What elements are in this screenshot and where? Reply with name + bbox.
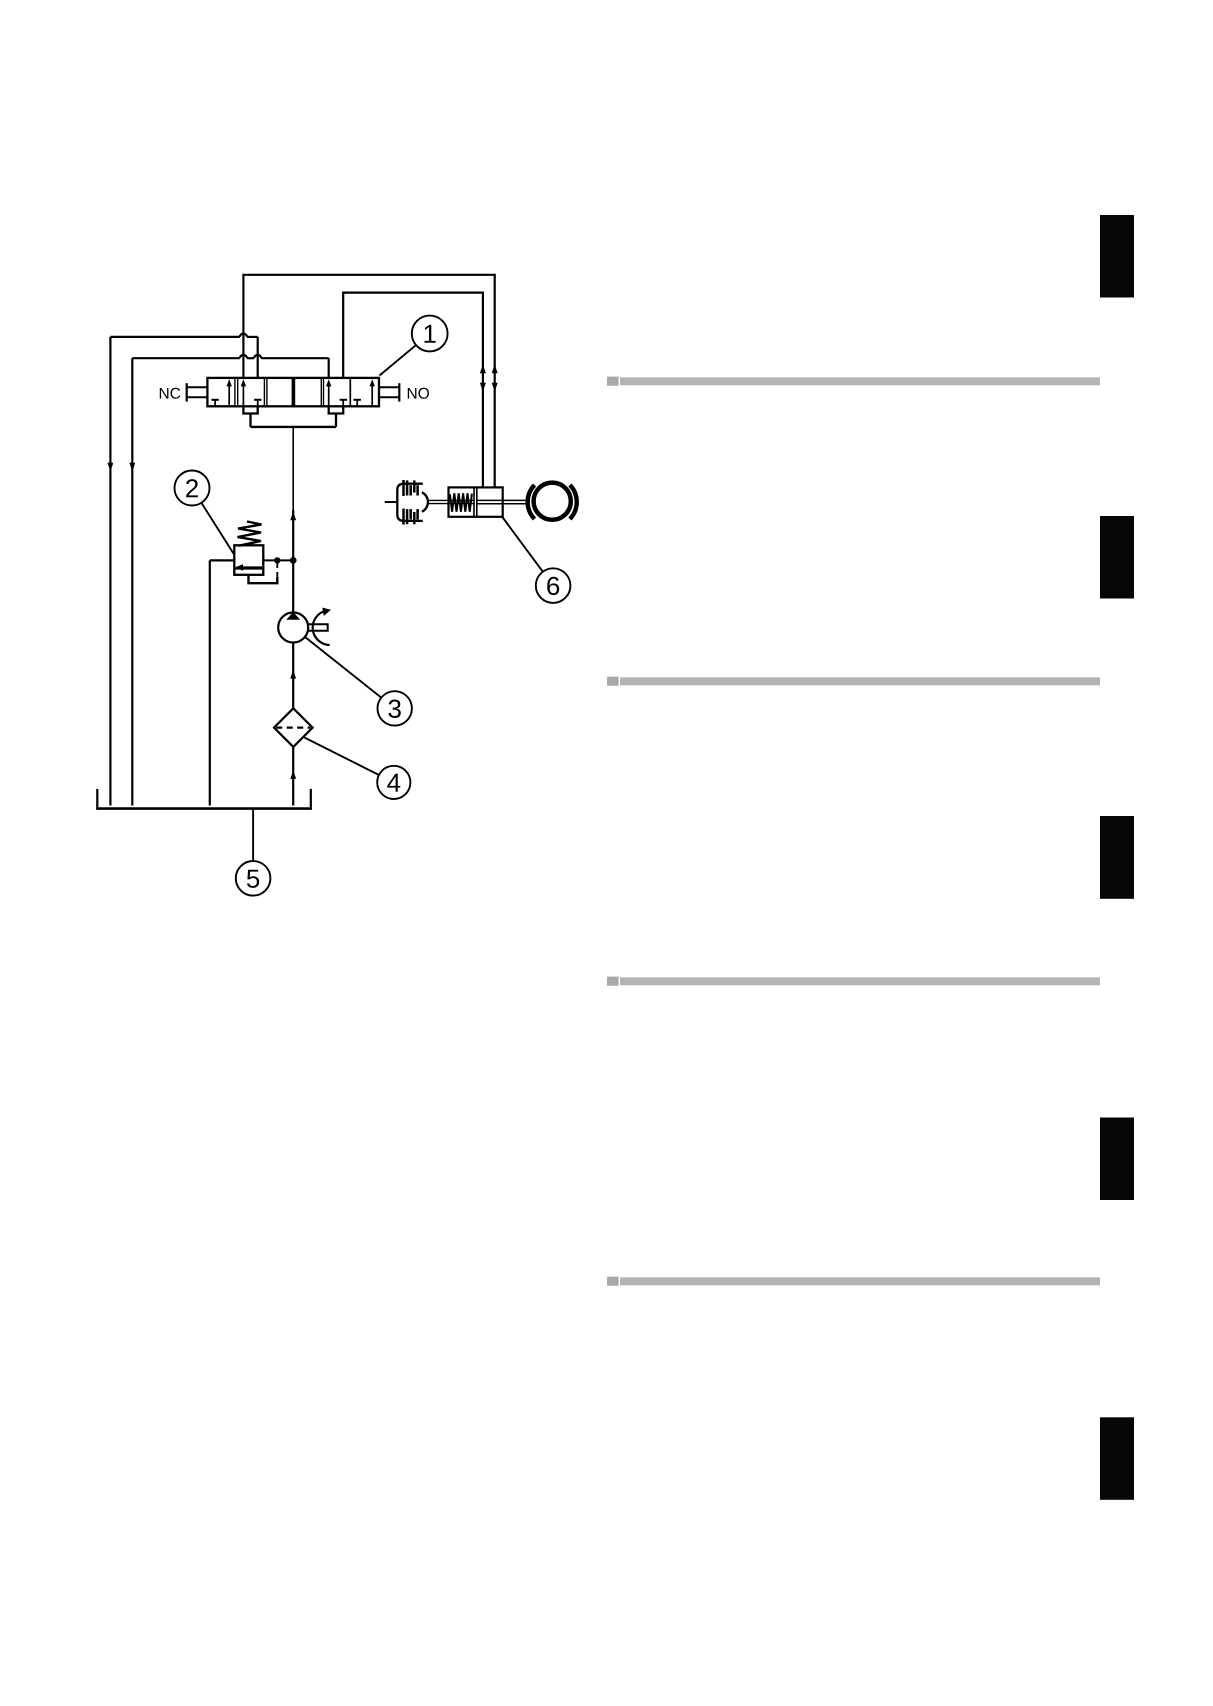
callout 5 leader: [252, 809, 254, 861]
wire: pilot supply second line P2 (valve to actuator inner): [343, 293, 483, 488]
wire: pilot supply top line P1 (valve to actuator outer): [243, 275, 494, 488]
valve drain collector wire: [251, 426, 337, 428]
brake actuator 6: pushrod left (double line): [427, 500, 474, 503]
wire: left return line A (upper) with hop: [110, 334, 257, 806]
brake actuator 6: piston rod (double line): [477, 500, 526, 503]
valve drain cup right: [329, 406, 344, 413]
reservoir tank 5: [96, 789, 312, 809]
solenoid valve 1: closed-port T symbols: [211, 400, 361, 407]
pump 3: outlet triangle: [286, 612, 300, 620]
pump 3: drive shaft: [308, 624, 328, 630]
filter 4: element dashed line: [276, 726, 310, 728]
junction dot (main line tee): [290, 557, 297, 564]
solenoid valve 1: NC port stub: [187, 383, 208, 401]
chapter tab 2: [1100, 516, 1134, 599]
relief valve 2: tee to main line: [263, 559, 293, 561]
chapter tab 5: [1100, 1417, 1134, 1500]
relief valve 2: spring: [238, 522, 262, 546]
valve drain cup left leg: [249, 414, 251, 427]
solenoid valve 1: section dividers: [235, 378, 350, 406]
relief valve 2: pilot sense dashed wire: [276, 563, 278, 577]
relief valve 2: body box: [234, 545, 263, 575]
brake actuator 6: comb teeth bottom: [404, 509, 418, 525]
brake shoe arc left: [528, 485, 535, 519]
relief valve 2: drain loop: [249, 574, 278, 583]
brake shoe arc right: [570, 485, 577, 519]
brake actuator 6: comb teeth top: [404, 480, 418, 496]
relief valve 2: return wire to tank: [210, 560, 235, 805]
callout circle 4: [377, 766, 410, 799]
brake actuator 6: return spring: [450, 493, 472, 512]
valve drain cup left: [243, 406, 257, 413]
brake actuator 6: linkage stub: [385, 501, 398, 503]
callout circle 1: [412, 316, 448, 352]
solenoid valve 1: body: [207, 378, 379, 406]
main pressure line (tank-filter-pump-valve): [292, 427, 294, 806]
callout circle 2: [175, 471, 210, 506]
flow arrow down on left return B: [129, 463, 135, 472]
callout circle 6: [536, 568, 571, 603]
solenoid valve 1: center land (filled): [292, 378, 296, 406]
callout 1 leader: [380, 345, 416, 375]
chapter tab 3: [1100, 816, 1134, 899]
callout 2 leader: [201, 503, 233, 554]
brake drum ring: [534, 483, 571, 520]
section rule bar 3: [607, 977, 1100, 986]
callout 3 leader: [305, 637, 382, 698]
section rule bar 4: [607, 1277, 1100, 1286]
section rule bar 2: [607, 677, 1100, 686]
callout circle 3: [378, 691, 412, 725]
section rule bar 1: [607, 377, 1100, 386]
callout circle 5: [236, 861, 271, 896]
chapter tab 1: [1100, 215, 1134, 298]
brake actuator 6: piston (double line): [474, 487, 477, 516]
pump 3: circle: [278, 613, 308, 643]
wire: left return line B (lower) with two hops: [132, 355, 328, 806]
flow arrows up on main line: [290, 511, 296, 779]
chapter tab 4: [1100, 1118, 1134, 1201]
brake actuator 6: right bulge: [422, 492, 428, 511]
solenoid valve 1: internal up-arrows: [227, 379, 375, 406]
junction dot (pilot branch): [274, 557, 280, 563]
brake actuator 6: cylinder body: [449, 487, 503, 516]
flow arrows on actuator lines (bidirectional): [480, 364, 498, 391]
valve drain cup right leg: [335, 414, 337, 427]
flow arrow down on left return A: [108, 463, 114, 472]
filter 4: diamond: [274, 708, 313, 747]
pump 3: rotation arrow arc: [313, 612, 330, 646]
callout 4 leader: [304, 738, 379, 776]
brake actuator 6: adjuster comb body: [397, 484, 423, 521]
callout 6 leader: [503, 518, 543, 572]
relief valve 2: internal flow arrow: [242, 566, 262, 568]
label NC: [160, 388, 181, 399]
solenoid valve 1: NO port stub: [379, 383, 399, 401]
label NO: [408, 388, 429, 399]
